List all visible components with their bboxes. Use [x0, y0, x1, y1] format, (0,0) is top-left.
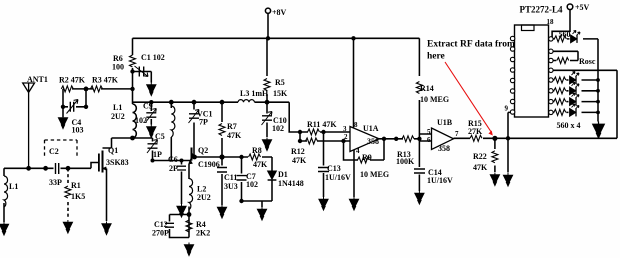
- svg-text:R14: R14: [420, 84, 434, 93]
- svg-text:2U2: 2U2: [111, 112, 125, 121]
- svg-text:+8V: +8V: [272, 8, 287, 17]
- svg-text:9: 9: [505, 105, 509, 113]
- svg-text:1P: 1P: [153, 150, 162, 159]
- svg-text:4: 4: [356, 147, 360, 155]
- svg-text:102: 102: [272, 124, 284, 133]
- svg-text:47K: 47K: [292, 156, 307, 165]
- svg-text:100K: 100K: [396, 157, 415, 166]
- svg-text:1K5: 1K5: [71, 192, 85, 201]
- svg-text:1U/16V: 1U/16V: [427, 176, 453, 185]
- svg-text:5: 5: [427, 128, 431, 136]
- svg-text:C6: C6: [168, 155, 178, 164]
- svg-text:3SK83: 3SK83: [106, 158, 129, 167]
- svg-text:Extract RF data from: Extract RF data from: [427, 40, 515, 50]
- svg-text:560 x 4: 560 x 4: [557, 121, 581, 130]
- svg-text:R7: R7: [227, 122, 237, 131]
- svg-text:L3 1mH: L3 1mH: [240, 89, 269, 98]
- svg-text:U1A: U1A: [363, 124, 379, 133]
- svg-text:3: 3: [343, 125, 347, 133]
- svg-text:102: 102: [135, 116, 147, 125]
- svg-text:7: 7: [455, 130, 459, 138]
- svg-text:R11 47K: R11 47K: [307, 120, 337, 129]
- svg-text:47K: 47K: [253, 160, 268, 169]
- svg-text:27K: 27K: [468, 127, 483, 136]
- svg-text:8: 8: [354, 121, 358, 129]
- svg-text:2P: 2P: [169, 164, 178, 173]
- svg-text:102: 102: [246, 180, 258, 189]
- svg-text:R3 47K: R3 47K: [92, 76, 119, 85]
- svg-text:47K: 47K: [227, 131, 242, 140]
- svg-text:R1: R1: [71, 181, 81, 190]
- svg-text:R22: R22: [473, 152, 487, 161]
- svg-text:6: 6: [427, 136, 431, 144]
- svg-text:C2: C2: [49, 147, 59, 156]
- svg-text:7P: 7P: [199, 118, 208, 127]
- svg-text:Q2: Q2: [198, 146, 208, 155]
- svg-text:2U2: 2U2: [197, 193, 211, 202]
- svg-text:358: 358: [438, 144, 450, 153]
- svg-text:3U3: 3U3: [224, 182, 238, 191]
- svg-text:R9: R9: [362, 153, 372, 162]
- svg-text:R8: R8: [252, 146, 262, 155]
- svg-text:15K: 15K: [273, 89, 288, 98]
- svg-text:103: 103: [72, 126, 84, 135]
- svg-text:C13: C13: [327, 164, 341, 173]
- svg-text:here: here: [427, 52, 445, 62]
- svg-text:47K: 47K: [473, 163, 488, 172]
- svg-text:ANT1: ANT1: [27, 75, 48, 84]
- svg-text:18: 18: [547, 18, 555, 26]
- svg-text:U1B: U1B: [437, 118, 453, 127]
- svg-text:D1: D1: [278, 170, 288, 179]
- svg-text:C1906: C1906: [198, 160, 220, 169]
- svg-text:R2 47K: R2 47K: [59, 76, 86, 85]
- svg-text:10 MEG: 10 MEG: [360, 170, 389, 179]
- svg-text:C11: C11: [224, 173, 237, 182]
- svg-text:2: 2: [344, 133, 348, 141]
- svg-text:Q1: Q1: [108, 146, 118, 155]
- svg-text:R12: R12: [291, 147, 305, 156]
- svg-text:1U/16V: 1U/16V: [325, 173, 351, 182]
- svg-text:33P: 33P: [49, 178, 62, 187]
- svg-text:PT2272-L4: PT2272-L4: [520, 5, 564, 15]
- svg-text:C9: C9: [143, 102, 153, 111]
- svg-text:270P: 270P: [152, 229, 169, 238]
- svg-text:C1 102: C1 102: [141, 53, 165, 62]
- svg-text:L1: L1: [113, 103, 122, 112]
- svg-text:1N4148: 1N4148: [278, 179, 304, 188]
- svg-text:+5V: +5V: [575, 3, 590, 12]
- svg-text:2K2: 2K2: [196, 229, 210, 238]
- svg-text:L1: L1: [9, 182, 18, 191]
- svg-text:C5: C5: [155, 132, 165, 141]
- svg-text:560: 560: [559, 30, 571, 39]
- svg-text:R5: R5: [275, 78, 285, 87]
- svg-text:358: 358: [367, 137, 379, 146]
- svg-text:Rosc: Rosc: [579, 57, 596, 66]
- svg-text:100: 100: [112, 63, 124, 72]
- svg-text:10 MEG: 10 MEG: [420, 95, 449, 104]
